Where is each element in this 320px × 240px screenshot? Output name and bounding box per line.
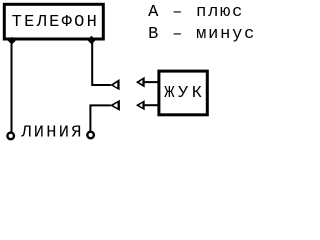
svg-text:А – плюс: А – плюс xyxy=(148,3,244,22)
plug X1 triangle (cable side top) xyxy=(110,79,119,90)
junction node left diamond xyxy=(8,37,16,45)
wire right terminal to plug X2 xyxy=(90,105,110,131)
junction node right diamond xyxy=(87,36,96,45)
svg-text:ЛИНИЯ: ЛИНИЯ xyxy=(20,123,84,142)
terminal circle right xyxy=(87,132,94,139)
wire socket X2 to device xyxy=(143,104,159,106)
svg-text:ТЕЛЕФОН: ТЕЛЕФОН xyxy=(12,13,100,32)
wire telephone to plug X1 xyxy=(92,42,111,85)
telephone box BA1 xyxy=(4,4,103,39)
svg-text:ЖУК: ЖУК xyxy=(164,84,205,103)
socket X2 triangle (device side bottom) xyxy=(136,100,145,110)
terminal circle left xyxy=(7,133,14,140)
svg-text:В – минус: В – минус xyxy=(148,25,256,44)
device box ЖУК xyxy=(159,71,207,115)
socket X1 triangle (device side top) xyxy=(136,77,145,88)
wire left vertical xyxy=(11,41,13,132)
wire socket X1 to device xyxy=(143,81,159,83)
plug X2 triangle (cable side bottom) xyxy=(110,100,120,111)
